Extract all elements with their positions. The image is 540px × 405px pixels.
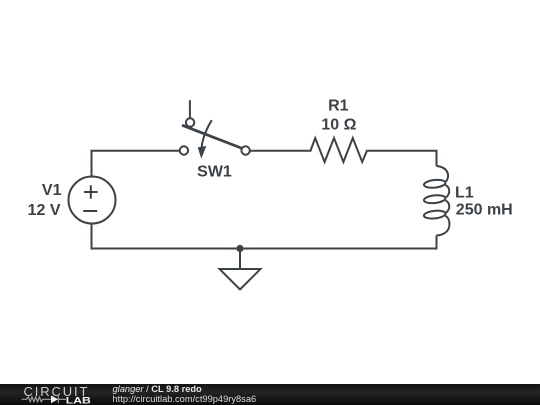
- svg-text:R1: R1: [328, 98, 349, 115]
- svg-text:SW1: SW1: [197, 164, 232, 181]
- svg-text:L1: L1: [455, 185, 474, 202]
- svg-text:V1: V1: [42, 182, 62, 199]
- svg-text:10 Ω: 10 Ω: [321, 116, 356, 133]
- svg-text:glanger / CL 9.8 redo: glanger / CL 9.8 redo: [113, 384, 203, 394]
- svg-text:12 V: 12 V: [28, 202, 61, 219]
- svg-text:LAB: LAB: [66, 394, 91, 405]
- svg-text:250 mH: 250 mH: [456, 202, 513, 219]
- svg-text:http://circuitlab.com/ct99p49r: http://circuitlab.com/ct99p49ry8sa6: [113, 394, 257, 404]
